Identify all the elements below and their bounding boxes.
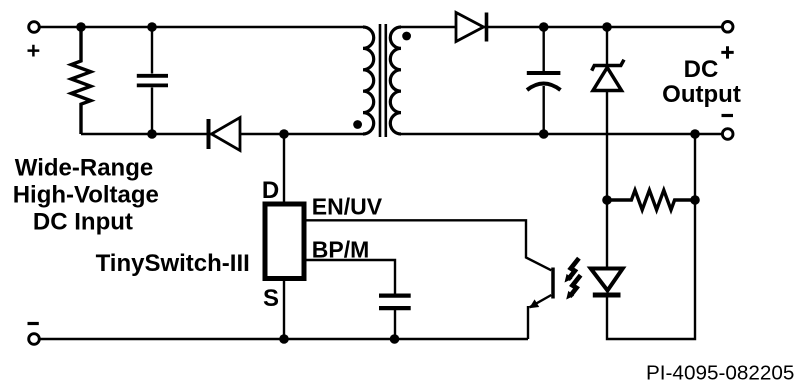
plus sign input [28,45,40,57]
IC U1 TinySwitch-III leads [283,134,285,339]
transformer T1 secondary winding [390,27,401,134]
wire secondary top rail [401,26,722,28]
svg-text:S: S [263,285,279,312]
resistor R2 feedback [607,190,695,210]
diode D2 output rectifier [456,13,487,42]
transformer T1 primary winding [363,27,374,134]
node junction dots [76,22,700,344]
svg-text:High-Voltage: High-Voltage [13,182,159,209]
minus sign input [28,322,39,325]
terminal output + [722,22,733,33]
svg-text:DC: DC [684,56,719,83]
capacitor C2 output [527,27,561,134]
capacitor C1 input [137,27,168,134]
zener diode VR1 [592,27,624,200]
svg-text:EN/UV: EN/UV [312,194,383,220]
terminal output - [722,129,733,140]
wire secondary bottom rail [401,133,722,135]
plus sign output [721,46,733,58]
minus sign output [722,114,734,117]
svg-text:D: D [262,177,279,204]
optocoupler transistor Q1 [528,268,553,340]
LED D3 optocoupler [591,134,695,339]
wire top input rail [34,26,363,28]
svg-text:TinySwitch-III: TinySwitch-III [96,250,250,277]
diode D1 input [209,118,241,151]
wire BP/M [304,260,395,294]
svg-text:Output: Output [662,81,741,108]
wire EN/UV [304,220,551,270]
capacitor C3 bypass [379,296,411,339]
IC U1 TinySwitch-III body [265,204,304,279]
light arrows [565,258,581,299]
terminal input - [29,334,40,345]
transformer T1 core [380,24,386,137]
terminal input + [29,22,40,33]
svg-text:Wide-Range: Wide-Range [15,155,153,182]
wire mid input rail [81,133,363,135]
resistor R1 input [71,27,91,134]
svg-text:PI-4095-082205: PI-4095-082205 [646,362,794,385]
svg-text:BP/M: BP/M [312,236,370,262]
svg-text:DC Input: DC Input [33,209,133,236]
transformer polarity dots [353,120,362,129]
wire bottom rail [34,338,528,340]
